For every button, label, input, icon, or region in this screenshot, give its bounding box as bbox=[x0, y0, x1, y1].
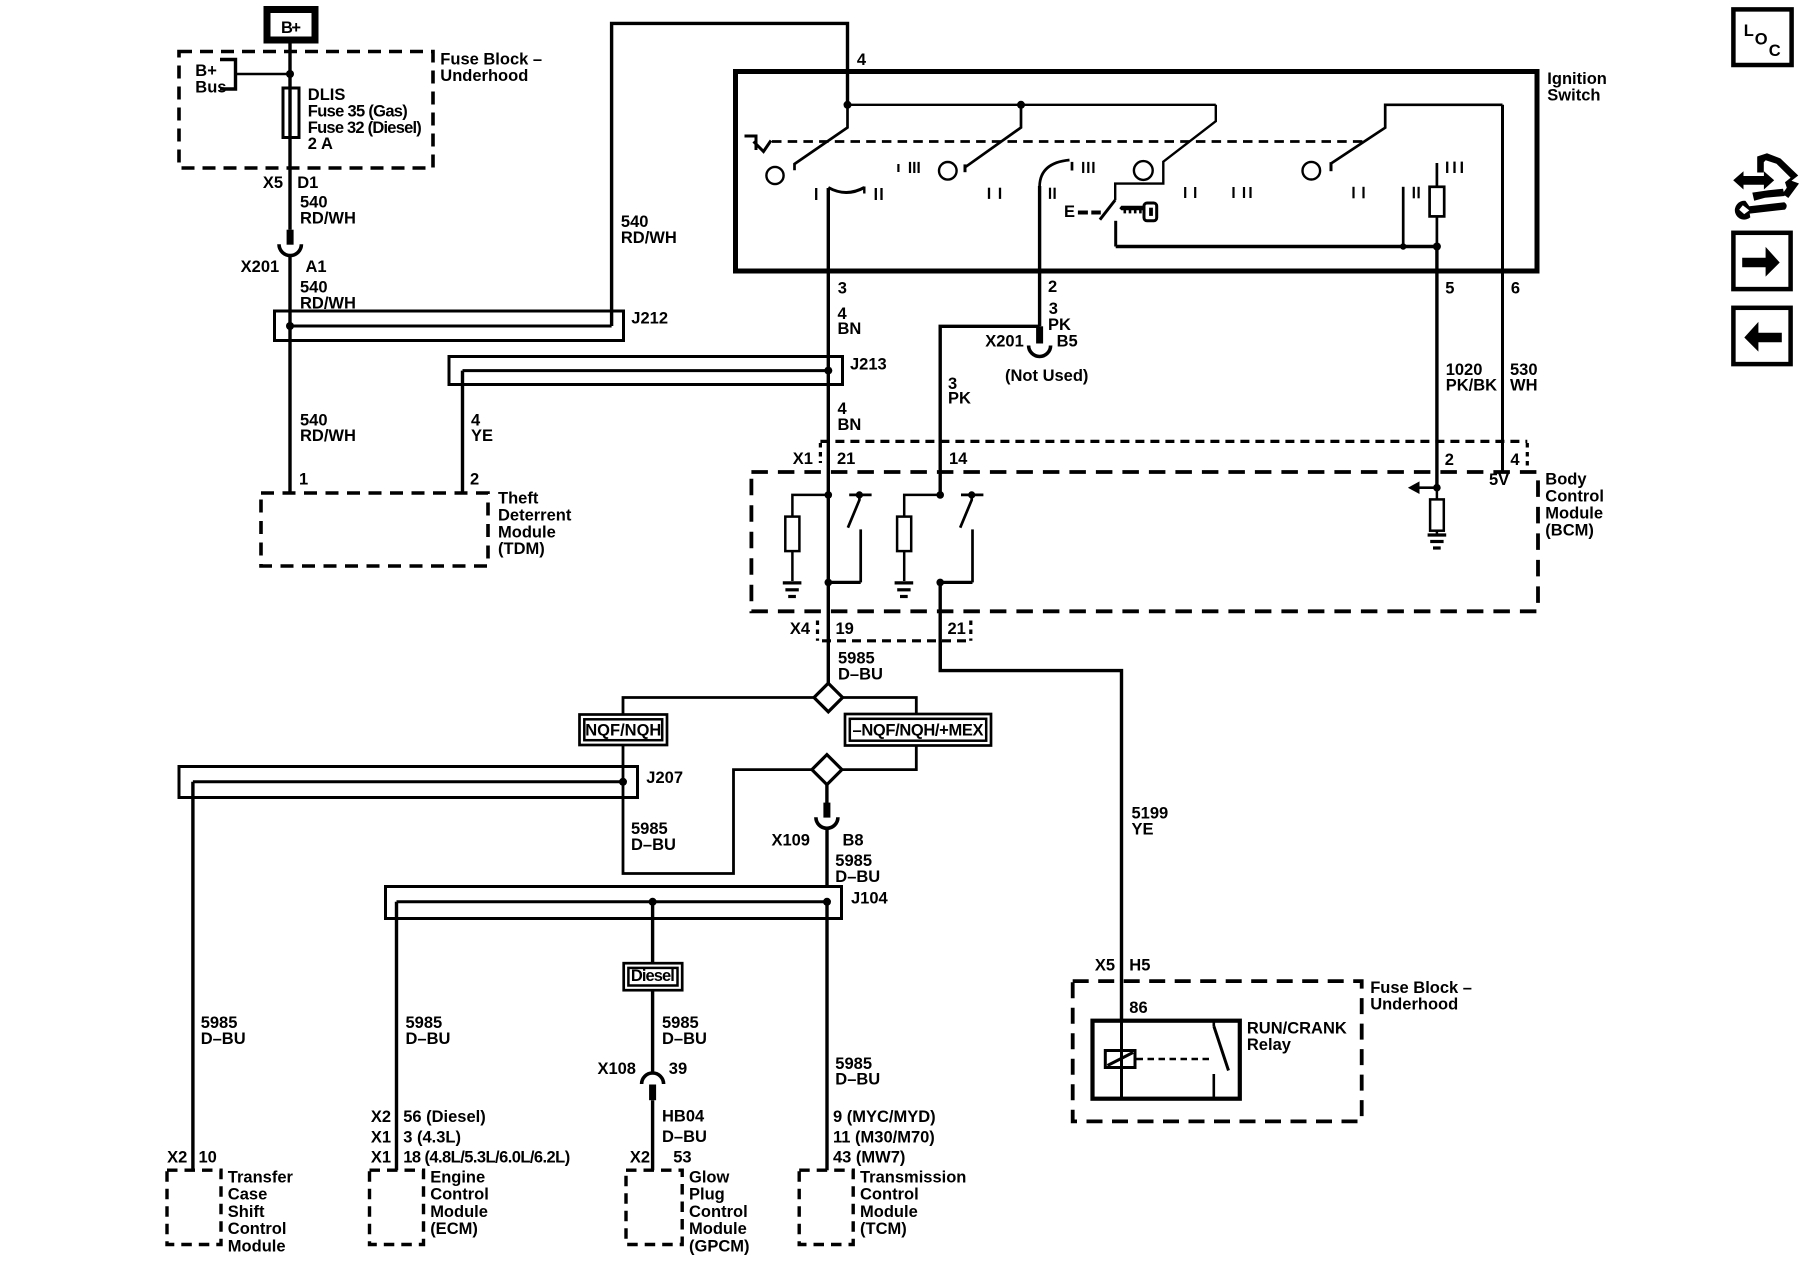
pin labels TCM bbox=[833, 1108, 936, 1167]
key switch stationary contact bbox=[1114, 221, 1117, 247]
svg-text:43 (MW7): 43 (MW7) bbox=[833, 1149, 905, 1167]
svg-text:Underhood: Underhood bbox=[440, 67, 528, 85]
pole C curved arm bbox=[1040, 160, 1072, 186]
svg-text:2: 2 bbox=[1048, 278, 1057, 296]
wire J104 left to ECM bbox=[395, 902, 398, 1170]
transfer case shift control module dashed box bbox=[167, 1169, 293, 1256]
svg-text:X109: X109 bbox=[771, 832, 810, 850]
wire J104 to Diesel box bbox=[651, 902, 654, 963]
svg-text:39: 39 bbox=[669, 1060, 687, 1078]
wire X201 to J212 and TDM bbox=[288, 256, 291, 494]
svg-text:A1: A1 bbox=[306, 258, 327, 276]
fuse DLIS bbox=[283, 86, 422, 153]
wire label 540 RD/WH at loop bbox=[621, 213, 677, 247]
svg-text:10: 10 bbox=[199, 1149, 217, 1167]
BCM switch B bbox=[940, 491, 983, 582]
node wire 5 junction bbox=[1433, 243, 1441, 251]
svg-text:WH: WH bbox=[1510, 377, 1538, 395]
svg-text:11 (M30/M70): 11 (M30/M70) bbox=[833, 1128, 935, 1146]
svg-text:PK: PK bbox=[1048, 316, 1071, 334]
svg-text:Control: Control bbox=[689, 1203, 748, 1221]
connector X5 pin H5 labels bbox=[1095, 957, 1151, 975]
svg-text:X5: X5 bbox=[1095, 957, 1115, 975]
svg-text:Transfer: Transfer bbox=[228, 1169, 294, 1187]
svg-text:YE: YE bbox=[471, 427, 493, 445]
wire label 5985 D-BU below J207 bbox=[631, 820, 676, 854]
svg-text:J104: J104 bbox=[851, 890, 889, 908]
svg-text:X2: X2 bbox=[371, 1108, 391, 1126]
svg-text:D–BU: D–BU bbox=[835, 1071, 880, 1089]
switch pole C contact circle bbox=[1134, 161, 1153, 180]
svg-text:3 (4.3L): 3 (4.3L) bbox=[403, 1128, 461, 1146]
pin labels ECM bbox=[371, 1108, 570, 1167]
wire 2 inside ignition bbox=[1038, 186, 1041, 326]
wire X109 to J104 bbox=[825, 828, 828, 886]
tick marks pole A bbox=[816, 188, 881, 200]
svg-text:J212: J212 bbox=[631, 310, 668, 328]
svg-text:Relay: Relay bbox=[1247, 1036, 1292, 1054]
svg-text:Fuse 32 (Diesel): Fuse 32 (Diesel) bbox=[308, 119, 422, 137]
svg-text:H5: H5 bbox=[1129, 957, 1150, 975]
theft deterrent module TDM dashed box bbox=[261, 493, 488, 566]
pin labels GPCM bbox=[630, 1149, 692, 1167]
tick marks pole B upper bbox=[898, 162, 918, 173]
svg-text:Control: Control bbox=[860, 1186, 919, 1204]
svg-text:Shift: Shift bbox=[228, 1203, 265, 1221]
switch pole D contact circle bbox=[1303, 162, 1321, 180]
svg-text:Glow: Glow bbox=[689, 1169, 729, 1187]
wire label 4 YE bbox=[471, 411, 493, 445]
svg-text:O: O bbox=[1755, 31, 1768, 49]
svg-text:Fuse 35 (Gas): Fuse 35 (Gas) bbox=[308, 102, 408, 120]
wire label 5199 YE bbox=[1132, 805, 1169, 839]
key switch blade bbox=[1100, 200, 1115, 220]
icon back arrow box bbox=[1733, 308, 1790, 364]
BCM switch A bbox=[828, 491, 871, 582]
wire 5 1020 PK/BK to BCM bbox=[1435, 247, 1438, 488]
tick marks mid pole D bbox=[1354, 187, 1419, 199]
svg-text:18 (4.8L/5.3L/6.0L/6.2L): 18 (4.8L/5.3L/6.0L/6.2L) bbox=[403, 1149, 570, 1167]
wire label 1020 PK/BK bbox=[1446, 361, 1497, 395]
svg-text:B5: B5 bbox=[1057, 333, 1078, 351]
wire label 4 BN lower bbox=[838, 400, 862, 434]
option box Diesel bbox=[624, 963, 683, 990]
wire Diesel to X108 bbox=[651, 990, 654, 1073]
connector X201 pin B5 not used stub bbox=[985, 326, 1088, 385]
svg-text:21: 21 bbox=[837, 450, 855, 468]
svg-text:Theft: Theft bbox=[498, 490, 539, 508]
label fuse block underhood bbox=[440, 51, 542, 86]
svg-text:Module: Module bbox=[1545, 505, 1603, 523]
switch pole A contact circle bbox=[766, 167, 783, 184]
svg-text:86: 86 bbox=[1129, 999, 1147, 1017]
switch pole B contact circle bbox=[939, 162, 957, 180]
svg-text:D–BU: D–BU bbox=[835, 868, 880, 886]
connector line X1 bbox=[793, 441, 1528, 470]
svg-text:2 A: 2 A bbox=[308, 135, 333, 153]
splice pack J104 bbox=[386, 887, 889, 919]
wire S1 to -NQF/NQH/+MEX bbox=[843, 698, 917, 715]
svg-text:D–BU: D–BU bbox=[631, 836, 676, 854]
ignition switch box bbox=[736, 70, 1607, 271]
connector X109 pin B8 bbox=[771, 803, 863, 850]
wire J207 to transfer case module bbox=[191, 782, 194, 1170]
ground C bbox=[1428, 535, 1447, 548]
ignition bottom bus to pin 5 bbox=[1116, 245, 1437, 248]
svg-text:PK/BK: PK/BK bbox=[1446, 377, 1497, 395]
svg-text:J213: J213 bbox=[850, 356, 887, 374]
splice diamond S1 bbox=[814, 683, 843, 712]
svg-text:D–BU: D–BU bbox=[662, 1030, 707, 1048]
svg-text:(TDM): (TDM) bbox=[498, 540, 545, 558]
relay switch bbox=[1214, 1021, 1229, 1099]
connector line X4 bbox=[790, 620, 971, 641]
wire X108 to GPCM bbox=[651, 1100, 654, 1170]
node: B+ bus junction bbox=[286, 70, 294, 78]
ignition feed line bbox=[848, 104, 1216, 106]
wire 3 from pole A through J213 BCM to X4 bbox=[827, 188, 830, 683]
svg-text:Module: Module bbox=[228, 1237, 286, 1255]
ground A bbox=[783, 583, 802, 597]
node BCM switch A return bbox=[825, 579, 833, 587]
svg-text:X4: X4 bbox=[790, 620, 811, 638]
wire S1 to NQF/NQH bbox=[623, 698, 814, 715]
svg-text:(GPCM): (GPCM) bbox=[689, 1237, 750, 1255]
splice pack J213 bbox=[449, 356, 887, 385]
tick marks pole C upper bbox=[1083, 162, 1093, 173]
option box NQF/NQH bbox=[580, 715, 668, 746]
splice pack J207 bbox=[179, 767, 683, 798]
svg-text:Bus: Bus bbox=[195, 78, 226, 96]
icon LOC box bbox=[1733, 9, 1791, 65]
svg-text:BN: BN bbox=[838, 320, 862, 338]
mechanical linkage dashed line bbox=[772, 140, 1363, 143]
label TDM bbox=[498, 490, 572, 559]
key switch E label and dashes bbox=[1064, 203, 1101, 221]
wire label 540 RD/WH bbox=[300, 279, 356, 313]
B+ bus bar bbox=[195, 60, 290, 97]
svg-text:X1: X1 bbox=[371, 1128, 391, 1146]
fuse block underhood 2 dashed box bbox=[1073, 979, 1472, 1121]
wire S2 to X109 bbox=[825, 785, 828, 803]
switch pole D arm from wire 6 bbox=[1331, 105, 1503, 171]
svg-text:X2: X2 bbox=[167, 1149, 187, 1167]
wire -NQF box to S2 bbox=[842, 746, 916, 770]
svg-text:2: 2 bbox=[1445, 451, 1454, 469]
switch pole A arm bbox=[795, 105, 848, 171]
svg-text:Transmission: Transmission bbox=[860, 1169, 966, 1187]
svg-text:X1: X1 bbox=[793, 450, 813, 468]
wire B+ to fuse bbox=[288, 43, 291, 230]
transmission control module TCM dashed box bbox=[799, 1169, 966, 1245]
svg-text:2: 2 bbox=[470, 471, 479, 489]
svg-text:1: 1 bbox=[299, 471, 308, 489]
splice pack J212 bbox=[275, 310, 669, 341]
svg-text:(TCM): (TCM) bbox=[860, 1220, 907, 1238]
svg-text:56 (Diesel): 56 (Diesel) bbox=[403, 1108, 486, 1126]
wire X4-21 jog to relay 5199 YE bbox=[940, 641, 1121, 1021]
svg-text:J207: J207 bbox=[646, 769, 683, 787]
svg-text:4: 4 bbox=[857, 51, 867, 69]
svg-text:E: E bbox=[1064, 203, 1075, 221]
svg-text:Diesel: Diesel bbox=[631, 967, 675, 985]
svg-text:53: 53 bbox=[673, 1149, 691, 1167]
svg-text:Engine: Engine bbox=[430, 1169, 485, 1187]
svg-text:RD/WH: RD/WH bbox=[300, 209, 356, 227]
RUN/CRANK relay box bbox=[1093, 1020, 1347, 1099]
svg-text:Module: Module bbox=[498, 523, 556, 541]
svg-text:Module: Module bbox=[689, 1220, 747, 1238]
svg-text:Fuse Block –: Fuse Block – bbox=[1370, 979, 1472, 997]
wire label 5985 D-BU below X109 bbox=[835, 852, 880, 886]
svg-text:14: 14 bbox=[949, 450, 968, 468]
node feed pole B bbox=[1017, 101, 1025, 109]
svg-text:X2: X2 bbox=[630, 1149, 650, 1167]
splice diamond S2 bbox=[812, 755, 842, 785]
glow plug control module GPCM dashed box bbox=[626, 1169, 750, 1256]
B+ terminal box bbox=[267, 10, 315, 41]
svg-text:PK: PK bbox=[948, 390, 971, 408]
svg-text:YE: YE bbox=[1132, 820, 1154, 838]
svg-text:NQF/NQH: NQF/NQH bbox=[585, 722, 661, 740]
svg-text:C: C bbox=[1769, 42, 1781, 60]
svg-text:9 (MYC/MYD): 9 (MYC/MYD) bbox=[833, 1108, 936, 1126]
node BCM pin 14 junction bbox=[936, 491, 944, 499]
svg-text:RUN/CRANK: RUN/CRANK bbox=[1247, 1020, 1347, 1038]
wire label HB04 D-BU bbox=[662, 1108, 707, 1146]
connector X5 pin D1 labels bbox=[263, 174, 318, 192]
svg-text:(ECM): (ECM) bbox=[430, 1220, 478, 1238]
wire NQF/NQH down through J207 and U route to S2 bbox=[623, 745, 812, 874]
svg-text:D–BU: D–BU bbox=[662, 1128, 707, 1146]
svg-text:Fuse Block –: Fuse Block – bbox=[440, 51, 542, 69]
svg-text:X201: X201 bbox=[241, 258, 280, 276]
svg-text:D–BU: D–BU bbox=[406, 1030, 451, 1048]
svg-text:Deterrent: Deterrent bbox=[498, 506, 572, 524]
svg-text:Case: Case bbox=[228, 1186, 267, 1204]
wire 2 jog to pin 14 bbox=[940, 326, 1039, 495]
wire label 540 RD/WH bbox=[300, 411, 356, 445]
voltage arrow 5V feed bbox=[1408, 481, 1437, 494]
svg-text:B+: B+ bbox=[195, 62, 217, 80]
connector X201 pin A1 bbox=[241, 230, 327, 276]
engine control module ECM dashed box bbox=[370, 1169, 489, 1245]
svg-text:Switch: Switch bbox=[1547, 87, 1600, 105]
fuse block underhood dashed box bbox=[179, 52, 433, 169]
svg-text:Control: Control bbox=[1545, 488, 1604, 506]
svg-text:6: 6 bbox=[1511, 280, 1520, 298]
tick marks resistor bbox=[1447, 162, 1462, 173]
svg-text:B+: B+ bbox=[281, 19, 301, 37]
key switch feed from pin4 line bbox=[1115, 105, 1216, 200]
wire label 5985 D-BU diesel bbox=[662, 1014, 707, 1048]
wire label 4 BN upper bbox=[838, 305, 862, 338]
svg-text:Module: Module bbox=[860, 1203, 918, 1221]
svg-text:B8: B8 bbox=[843, 832, 864, 850]
wire label 530 WH bbox=[1510, 361, 1538, 395]
svg-text:D–BU: D–BU bbox=[201, 1030, 246, 1048]
svg-text:21: 21 bbox=[948, 620, 966, 638]
svg-text:RD/WH: RD/WH bbox=[300, 427, 356, 445]
svg-text:5V: 5V bbox=[1489, 471, 1509, 489]
wire label 5985 D-BU ECM bbox=[406, 1014, 451, 1048]
body control module BCM dashed box bbox=[751, 471, 1604, 612]
svg-text:D1: D1 bbox=[297, 174, 318, 192]
svg-text:Module: Module bbox=[430, 1203, 488, 1221]
svg-text:(BCM): (BCM) bbox=[1545, 522, 1594, 540]
node BCM pin 2 junction bbox=[1433, 484, 1441, 492]
svg-text:Plug: Plug bbox=[689, 1186, 725, 1204]
resistor in ignition switch bbox=[1430, 163, 1445, 247]
ground B bbox=[895, 583, 914, 597]
option box -NQF/NQH/+MEX bbox=[845, 714, 991, 746]
ignition pin labels bbox=[838, 278, 1520, 298]
pin labels transfer case bbox=[167, 1149, 217, 1167]
detent symbol bbox=[745, 136, 772, 152]
node feed left bbox=[844, 101, 852, 109]
svg-text:X201: X201 bbox=[985, 333, 1024, 351]
svg-text:X5: X5 bbox=[263, 174, 283, 192]
wire label 5985 D-BU at X4 bbox=[838, 650, 883, 684]
wire 4 YE from J213 to TDM bbox=[461, 371, 464, 493]
svg-text:D–BU: D–BU bbox=[838, 665, 883, 683]
key icon bbox=[1119, 203, 1156, 221]
wire label 3 PK left branch bbox=[948, 375, 971, 408]
svg-text:4: 4 bbox=[1510, 451, 1520, 469]
icon hotlink arrows and wrench bbox=[1733, 153, 1799, 219]
svg-text:–NQF/NQH/+MEX: –NQF/NQH/+MEX bbox=[853, 722, 984, 740]
node stationary joins bus bbox=[1400, 243, 1406, 249]
svg-text:Control: Control bbox=[228, 1220, 287, 1238]
icon forward arrow box bbox=[1733, 233, 1790, 289]
tick marks pole D left bbox=[1185, 187, 1250, 198]
svg-text:RD/WH: RD/WH bbox=[621, 229, 677, 247]
BCM resistor A to ground bbox=[785, 495, 828, 581]
svg-text:(Not Used): (Not Used) bbox=[1005, 367, 1088, 385]
TDM pin labels bbox=[299, 471, 479, 489]
pole D stationary contact bbox=[1402, 187, 1405, 247]
wire pin 14 to X4 pin 21 bbox=[939, 582, 942, 670]
svg-text:3: 3 bbox=[838, 280, 847, 298]
wire loop to ignition pin 4 bbox=[612, 23, 848, 326]
svg-text:DLIS: DLIS bbox=[308, 86, 346, 104]
node BCM switch B return bbox=[936, 579, 944, 587]
relay coil bbox=[1105, 1021, 1135, 1099]
svg-text:X108: X108 bbox=[597, 1060, 636, 1078]
svg-text:Underhood: Underhood bbox=[1370, 996, 1458, 1014]
svg-text:Control: Control bbox=[430, 1186, 489, 1204]
BCM resistor C to ground bbox=[1430, 488, 1444, 534]
wire 6 530 WH to BCM bbox=[1501, 105, 1504, 472]
BCM resistor B to ground bbox=[897, 495, 940, 581]
svg-text:X1: X1 bbox=[371, 1149, 391, 1167]
tick marks below pole C bbox=[1050, 188, 1055, 199]
relay coil to switch dashed link bbox=[1137, 1058, 1213, 1061]
wire label 540 RD/WH bbox=[300, 194, 356, 228]
svg-text:Ignition: Ignition bbox=[1547, 70, 1607, 88]
svg-text:HB04: HB04 bbox=[662, 1108, 705, 1126]
pole A arc contact bbox=[828, 187, 864, 194]
node BCM pin 21 junction bbox=[825, 491, 833, 499]
wire label 3 PK upper bbox=[1048, 300, 1071, 334]
switch pole B arm bbox=[965, 105, 1021, 172]
svg-text:Body: Body bbox=[1545, 471, 1587, 489]
svg-text:5: 5 bbox=[1445, 280, 1454, 298]
connector X108 pin 39 bbox=[597, 1060, 687, 1100]
wire label 5985 D-BU transfer bbox=[201, 1014, 246, 1048]
wire label 5985 D-BU TCM bbox=[835, 1055, 880, 1089]
wire J104 to TCM bbox=[825, 902, 828, 1170]
tick marks below pole B bbox=[989, 188, 1000, 199]
svg-text:BN: BN bbox=[838, 416, 862, 434]
svg-text:19: 19 bbox=[836, 620, 854, 638]
svg-text:L: L bbox=[1744, 22, 1754, 40]
